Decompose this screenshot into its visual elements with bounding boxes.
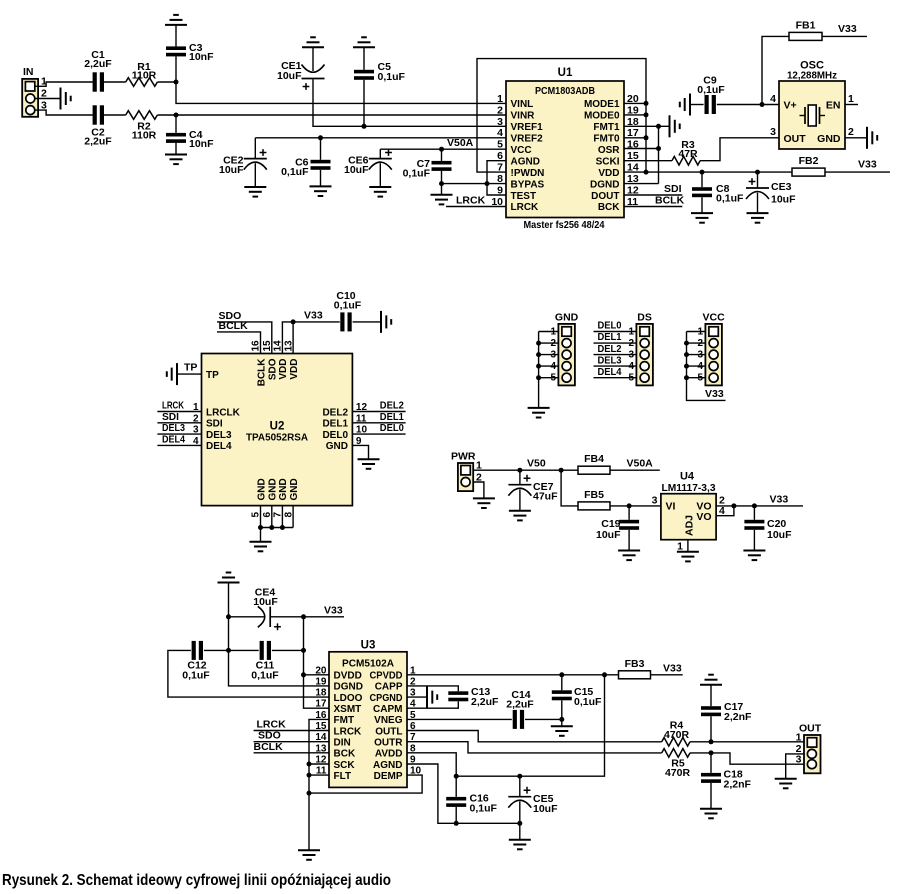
svg-text:DVDD: DVDD [334,671,362,682]
wire C12 to junction [204,649,259,651]
connector IN (3-pin) [22,66,47,117]
oscillator OSC 12,288MHz body [770,60,854,150]
U2 bottom pin names rotated and numbers [251,478,300,517]
wire net label BCLK to U2 pin16 [217,320,261,353]
capacitor CE1 10uF electrolytic [277,48,325,90]
svg-text:DEL1: DEL1 [380,412,404,423]
svg-text:47R: 47R [678,148,698,160]
wire LRCK / net label [446,195,506,207]
wire C7 to ground [441,184,443,195]
junction VO pins [731,503,736,508]
junction C5/VREF1 [362,124,367,129]
capacitor C20 10uF [744,506,792,551]
svg-text:VDD: VDD [289,359,300,380]
svg-text:PCM5102A: PCM5102A [342,658,394,670]
svg-text:DEL1: DEL1 [598,332,622,343]
svg-text:GND: GND [256,478,267,500]
svg-text:BCK: BCK [598,202,620,213]
svg-text:GND: GND [278,478,289,500]
junction CE4 right V33 [301,614,306,619]
svg-text:GND: GND [268,478,279,500]
junction DEMP return [307,791,312,796]
svg-text:2,2nF: 2,2nF [724,778,752,790]
wire C11 to DVDD vertical [272,649,304,651]
svg-text:XSMT: XSMT [334,704,362,715]
svg-text:OUTR: OUTR [374,738,403,749]
svg-text:10uF: 10uF [253,596,278,608]
svg-text:12,288MHz: 12,288MHz [787,70,837,82]
wire OSC EN stub [845,104,858,106]
wire DS pins with net labels DEL0-DEL4 [594,321,637,378]
wire DVDD vertical to XSMT [304,617,330,708]
svg-text:GND: GND [326,441,348,452]
svg-text:LRCK: LRCK [334,726,363,737]
svg-text:0,1uF: 0,1uF [334,299,362,311]
capacitor C10 0,1uF [334,290,381,332]
svg-text:V50A: V50A [447,137,474,149]
junction R1/C3 [174,80,179,85]
svg-text:TPA5052RSA: TPA5052RSA [246,432,308,444]
junction FB5 branch [559,468,564,473]
svg-text:TP: TP [184,362,197,374]
wire DGND net vertical to U3 pin19 [229,583,330,686]
ferrite bead FB5 [578,489,610,510]
svg-text:VINR: VINR [511,111,536,122]
capacitor C5 0,1uF [354,48,406,127]
svg-text:2,2uF: 2,2uF [84,136,112,148]
svg-text:0,1uF: 0,1uF [182,670,210,682]
svg-text:DGND: DGND [334,682,363,693]
wire FB4 to V50A [610,469,660,471]
ground below CE5 [509,840,531,850]
U2 right pin names and numbers [322,402,367,452]
svg-text:10uF: 10uF [344,164,369,176]
ground IN pin2 [61,88,71,110]
svg-text:CE3: CE3 [771,181,792,193]
junction C18/R5 [709,750,714,755]
svg-text:MODE1: MODE1 [584,99,620,110]
junction MODE0 [644,112,649,117]
wire U4 VO rail to V33 [716,506,803,516]
wire V+ node up to FB1 [762,36,789,104]
ground left of C9 [680,94,690,116]
ground at U2 pin9 [358,459,380,469]
svg-text:V33: V33 [838,23,857,35]
junction DVDD pin20 [301,672,306,677]
junction R2/C4 [174,113,179,118]
svg-text:FB1: FB1 [796,20,816,32]
resistor R2 110R [126,111,158,142]
wire BCLK net label to U3 BCK [254,741,330,753]
svg-text:!PWDN: !PWDN [511,168,545,179]
net label V33 at FB3 [663,663,682,675]
DAC U3 PCM5102A body [329,640,407,788]
svg-text:BCK: BCK [334,749,356,760]
svg-text:FMT0: FMT0 [593,134,620,145]
svg-text:10uF: 10uF [771,194,796,206]
junction FLT [307,773,312,778]
svg-text:VINL: VINL [511,99,534,110]
svg-text:2: 2 [41,88,47,100]
junction C6/VREF2 [318,135,323,140]
regulator U4 LM1117-3,3 body [652,471,725,553]
wire V+ node to OSC [762,104,779,106]
net label V50 [527,458,546,470]
svg-text:2,2nF: 2,2nF [724,711,752,723]
svg-text:CPGND: CPGND [370,693,403,704]
svg-text:0,1uF: 0,1uF [281,166,309,178]
svg-text:SCKI: SCKI [596,157,620,168]
svg-text:U1: U1 [558,67,573,79]
wire OSR stub [624,148,659,150]
svg-text:BYPAS: BYPAS [511,179,545,190]
junction C15/CPVDD [559,672,564,677]
ground below C15 [551,726,573,736]
svg-text:10uF: 10uF [596,529,621,541]
wire FB1 to V33 [822,35,867,37]
svg-text:Master fs256 48/24: Master fs256 48/24 [524,219,605,231]
wire R4 to OUT pin1 [690,741,804,743]
ferrite bead FB2 [792,155,825,176]
svg-text:GND: GND [289,478,300,500]
net label V33 at U2 [304,309,323,321]
wire GND header pins to ground [539,332,559,408]
wire FB5 to U4 VI [610,505,661,507]
capacitor CE7 47uF electrolytic [508,470,558,511]
ground below CE2 [244,187,266,197]
junction FMT1 bracket [656,124,661,129]
svg-text:0,1uF: 0,1uF [470,802,498,814]
svg-text:3: 3 [796,753,802,765]
svg-text:CAPP: CAPP [375,682,403,693]
capacitor C18 2,2nF [701,753,752,809]
capacitor C12 0,1uF [182,641,210,682]
wire U2 left pins with net labels LRCK SDI DEL3 DEL4 [157,401,201,446]
junction VDD loop [644,170,649,175]
U3 right pin names and numbers [370,665,422,782]
svg-text:DEL2: DEL2 [380,401,404,412]
wire OSC GND pin to ground [845,137,866,139]
junction OSC V+ node [760,102,765,107]
junction CE4 left [226,614,231,619]
svg-text:0,1uF: 0,1uF [403,168,431,180]
wire R2 to VINR [158,114,507,116]
wire AGND/TEST tie bracket [487,161,506,195]
wire branch down to FB5 [561,470,578,506]
ground at CPGND [427,686,437,708]
ground below C8 [691,213,713,223]
capacitor CE4 10uF electrolytic horizontal [229,586,304,630]
svg-text:AVDD: AVDD [375,749,403,760]
U1 left pin names [511,99,545,213]
wire C2 to R2 [104,114,126,116]
junctions VCC header [684,341,689,381]
svg-text:110R: 110R [132,70,157,82]
svg-text:DIN: DIN [334,738,351,749]
wire OUTR to R5 [407,742,662,753]
svg-text:V+: V+ [784,99,797,111]
wire AGND to ground bus [407,764,520,823]
wire SDO net label to U3 DIN [254,730,329,742]
wire VCC V50A net [380,148,506,150]
junction AVDD riser [602,672,607,677]
wire VNEG to C14 [407,718,512,720]
svg-text:V33: V33 [324,605,343,617]
svg-text:FB5: FB5 [584,489,604,501]
svg-text:BCLK: BCLK [256,358,267,387]
wire TP to ground [178,362,202,375]
junction CE3/VDD [755,170,760,175]
wire FB2 to V33 [825,171,890,173]
svg-text:DEL0: DEL0 [322,430,348,441]
wire LRCK net label to U3 [254,719,329,731]
wire MODE1 stub [624,102,646,104]
capacitor C11 0,1uF [251,641,279,682]
wire AVDD to decoupling bus and riser [407,675,605,776]
connector DS header (5-pin) [628,312,652,386]
junction C20/VO [752,503,757,508]
wire !PWDN to MODE/VDD loop [477,59,646,173]
resistor R4 470R [662,720,690,747]
svg-text:GND: GND [555,312,579,324]
svg-text:SDI: SDI [664,183,682,195]
svg-text:47uF: 47uF [533,491,558,503]
wire CAPP/CAPM bracket with C13 [407,686,458,708]
junction CE5 bottom [517,821,522,826]
svg-text:VO: VO [696,511,711,523]
svg-text:V33: V33 [705,388,724,400]
svg-text:VNEG: VNEG [374,715,403,726]
wire FMT1/OSR/DGND bracket [624,126,659,183]
capacitor CE2 10uF electrolytic [219,138,267,187]
ground below GND header [528,408,550,418]
ground above C17 [700,675,722,685]
svg-text:V50: V50 [527,458,546,470]
U2 top pin names rotated and numbers [251,340,300,386]
wire DEMP return loop [309,775,422,793]
junction CE7/V50 [517,468,522,473]
svg-text:10uF: 10uF [533,803,558,815]
svg-text:VCC: VCC [703,312,726,324]
wire U4 ADJ pin to ground [687,540,689,552]
connector VCC header (5-pin) [697,312,725,386]
svg-text:DEL3: DEL3 [206,430,232,441]
capacitor CE3 10uF electrolytic [746,172,796,213]
junction C15/C14/ground [559,717,564,722]
ferrite bead FB3 [619,658,651,679]
ground below U4 ADJ [677,552,699,562]
junction SCK [307,762,312,767]
ground below U3 left [298,850,320,860]
svg-text:0,1uF: 0,1uF [697,84,725,96]
junction C12/C11 mid [226,648,231,653]
junction CE5 top [517,774,522,779]
connector PWR (2-pin) [451,451,482,492]
junction GND bus 2 [269,525,274,530]
svg-text:VCC: VCC [511,145,532,156]
svg-text:LM1117-3,3: LM1117-3,3 [662,482,716,494]
capacitor C14 2,2uF [506,689,534,729]
junction U2 pin13 V33 [291,319,296,324]
svg-text:TEST: TEST [511,191,537,202]
wire V50 rail PWR pin1 to FB4 [474,469,578,471]
ground above C5 [353,37,375,47]
svg-text:LRCLK: LRCLK [206,407,241,418]
capacitor C16 0,1uF [446,776,497,823]
svg-text:SCK: SCK [334,760,356,771]
capacitor C15 0,1uF [552,675,602,726]
wire R1 to node / down to VINL [158,82,507,103]
svg-text:FB4: FB4 [584,453,604,465]
connector OUT (3-pin) [796,723,822,774]
wire BYPAS net [442,183,507,185]
svg-text:10nF: 10nF [189,138,214,150]
svg-text:OSR: OSR [598,145,620,156]
wire C1 to R1 [104,81,126,83]
capacitor C8 0,1uF [692,172,744,213]
wire U2 bottom GND pins bus [261,506,294,542]
svg-text:DEL3: DEL3 [598,355,622,366]
ground below C19 [618,551,640,561]
wire CPVDD rail to FB3 [407,674,619,676]
ground above CE4 bus [218,573,240,583]
wire R5 to OUT pin3 [690,753,804,764]
wire FB3 to V33 [651,674,683,676]
svg-text:DEL1: DEL1 [322,419,348,430]
svg-text:DEL2: DEL2 [598,344,622,355]
capacitor CE5 10uF electrolytic [508,776,558,840]
svg-text:0,1uF: 0,1uF [251,670,279,682]
junction C7/BYPAS [439,181,444,186]
svg-text:GND: GND [817,133,841,145]
net label V33 right of FB2 [858,159,877,171]
ground below CE7 [509,511,531,521]
svg-text:DEMP: DEMP [374,771,403,782]
ground below C6 [310,186,332,196]
svg-text:IN: IN [23,66,34,78]
svg-text:VREF1: VREF1 [511,122,544,133]
caption Rysunek 2 [2,872,391,889]
wire U2 right pins with net labels DEL2 DEL1 DEL0 [352,401,405,435]
resistor R1 110R [126,61,158,86]
svg-text:TP: TP [206,370,219,381]
svg-text:VDD: VDD [278,359,289,380]
svg-text:0,1uF: 0,1uF [716,193,744,205]
svg-text:FB2: FB2 [799,155,819,167]
svg-text:AGND: AGND [511,157,540,168]
junction C17/R4 [709,739,714,744]
svg-text:OUTL: OUTL [375,726,402,737]
svg-text:0,1uF: 0,1uF [378,71,406,83]
wire V33 stub at U3 [304,605,345,617]
capacitor C9 0,1uF [691,75,763,115]
junction FMT0 [644,135,649,140]
svg-text:CPVDD: CPVDD [370,671,403,682]
ground below CE6 [369,187,391,197]
resistor R5 470R [662,749,691,779]
ground at TP [167,363,177,385]
wire SCKI to R3 [624,160,672,162]
wire IN pin2 to ground [35,98,61,100]
svg-text:4: 4 [770,93,776,105]
wire CE1 to VREF1 [313,79,506,126]
wire R3 to OSC OUT [700,138,779,161]
capacitor C17 2,2nF [701,685,752,742]
ground below U2 [250,542,272,552]
wire U2 pin9 GND to ground [352,445,368,459]
ground at OUT pin2 [775,779,797,789]
net label V33 at FB1 [838,23,857,35]
wire OUT pin2 to ground [786,754,804,779]
svg-text:V33: V33 [663,663,682,675]
ferrite bead FB4 [578,453,610,474]
svg-text:PWR: PWR [451,451,476,463]
svg-text:DOUT: DOUT [591,191,619,202]
capacitor C7 0,1uF [403,149,452,183]
wire OUTL to R4 [407,731,662,742]
svg-text:FB3: FB3 [625,658,645,670]
svg-text:SDI: SDI [162,412,179,423]
ground right of C10 [381,311,391,333]
svg-text:DEL0: DEL0 [380,423,404,434]
junction GND bus 3 [280,525,285,530]
svg-text:OUT: OUT [784,133,807,145]
ground below CE3 [747,213,769,223]
svg-text:2: 2 [848,126,854,138]
svg-text:LRCK: LRCK [456,195,486,207]
svg-text:2,2uF: 2,2uF [506,699,534,711]
junction C11/DVDD [301,648,306,653]
wire MODE0 stub [624,114,646,116]
svg-text:470R: 470R [665,767,691,779]
svg-text:DEL3: DEL3 [162,423,185,434]
svg-text:3: 3 [770,126,776,138]
svg-text:DEL0: DEL0 [598,321,622,332]
net label V33 below VCC header [705,388,724,400]
wire LDOO loop to C12 [168,650,329,697]
svg-text:110R: 110R [132,130,157,142]
junction C16 top [454,774,459,779]
svg-text:10uF: 10uF [277,70,302,82]
wire DVDD pin20 stub [304,674,330,676]
svg-text:LRCK: LRCK [257,719,287,731]
svg-text:470R: 470R [664,729,690,741]
net label V50A [447,137,474,149]
wire net label SDO to U2 pin15 [217,310,272,354]
junction bracket/BYPAS [485,181,490,186]
svg-text:10uF: 10uF [767,529,792,541]
wire FMT1 to ground [624,125,669,127]
svg-text:VDD: VDD [598,168,619,179]
ferrite bead FB1 [789,20,822,41]
svg-text:SDO: SDO [268,358,279,380]
capacitor C2 2,2uF [84,105,112,147]
svg-text:BCLK: BCLK [219,320,249,332]
wire DOUT / net label SDI [624,183,682,195]
svg-text:VI: VI [666,501,676,513]
ground at OSC GND [867,127,877,149]
capacitor C6 0,1uF [281,138,330,187]
capacitor C4 10nF [166,115,214,155]
svg-text:VREF2: VREF2 [511,134,544,145]
svg-text:2,2uF: 2,2uF [471,696,499,708]
svg-text:LDOO: LDOO [334,693,363,704]
U1 right pin names [584,99,620,213]
svg-text:MODE0: MODE0 [584,111,620,122]
wire FMT0 stub [624,137,646,139]
U2 left pin names and numbers [193,370,241,452]
junction C16 bottom [454,821,459,826]
